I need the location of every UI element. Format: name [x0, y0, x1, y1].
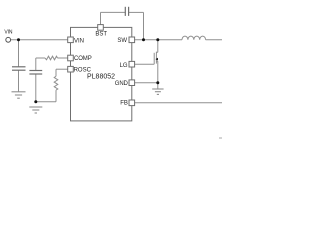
svg-text:PL88052: PL88052	[87, 73, 115, 80]
svg-text:COMP: COMP	[74, 56, 92, 62]
svg-text:SW: SW	[117, 38, 127, 44]
svg-text:FB: FB	[120, 100, 128, 106]
svg-text:GND: GND	[115, 81, 129, 87]
svg-text:LG: LG	[120, 63, 128, 69]
svg-text:BST: BST	[95, 32, 107, 38]
svg-text:VIN: VIN	[4, 29, 13, 35]
svg-text:VIN: VIN	[74, 38, 84, 44]
